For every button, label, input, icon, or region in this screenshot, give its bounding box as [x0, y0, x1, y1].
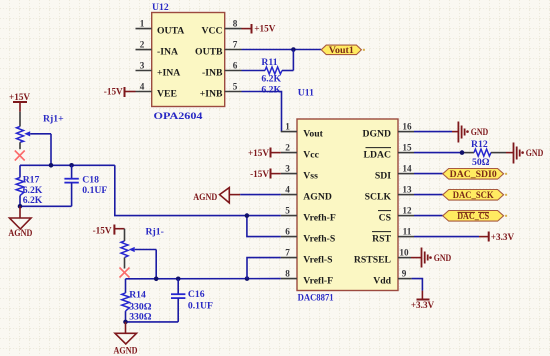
svg-text:Vdd: Vdd: [373, 275, 391, 286]
U12 pin 7 OUTB: [195, 40, 241, 58]
svg-text:1: 1: [285, 122, 290, 132]
svg-text:VEE: VEE: [157, 88, 177, 99]
U11 pin 14 SDI: [375, 164, 414, 182]
port DAC_CS (overlined): [443, 211, 507, 222]
svg-text:SCLK: SCLK: [365, 191, 392, 202]
U11 pin 15 LDAC: [364, 143, 414, 161]
junction C18 top: [69, 163, 74, 168]
svg-text:+3.3V: +3.3V: [491, 232, 515, 242]
capacitor C18: [64, 165, 78, 206]
U11 pin 13 SCLK: [365, 185, 414, 203]
wire Rj1- wiper down: [155, 250, 157, 279]
svg-text:U11: U11: [298, 87, 314, 98]
ground GND at pin 16: [452, 122, 489, 143]
svg-text:+15V: +15V: [9, 92, 30, 102]
svg-text:5: 5: [285, 206, 290, 216]
power -15V at U11 pin 3: [250, 169, 281, 179]
DAC U11 body: [297, 119, 398, 291]
svg-text:Vout1: Vout1: [329, 45, 354, 55]
svg-text:-15V: -15V: [250, 169, 269, 179]
U11 pin 10 RSTSEL: [354, 248, 411, 266]
svg-text:2: 2: [140, 40, 145, 50]
svg-text:Vrefl-S: Vrefl-S: [303, 254, 332, 265]
op-amp U12 body: [152, 13, 225, 107]
power -15V at U12 pin 4: [104, 87, 136, 98]
svg-text:16: 16: [402, 122, 412, 132]
svg-text:SDI: SDI: [375, 170, 391, 181]
svg-text:6.2K: 6.2K: [23, 195, 43, 206]
U11 pin 8 Vrefl-F: [281, 269, 333, 287]
wire R17 top: [19, 165, 21, 177]
svg-text:10: 10: [399, 248, 409, 258]
svg-text:12: 12: [402, 206, 412, 216]
power AGND below R14: [114, 322, 138, 356]
resistor R12: [474, 149, 506, 156]
svg-text:U12: U12: [152, 2, 169, 13]
svg-text:330Ω: 330Ω: [129, 312, 152, 323]
junction Rj1- wiper: [154, 277, 159, 282]
wire node A horizontal: [20, 164, 115, 166]
svg-text:-15V: -15V: [93, 226, 112, 236]
svg-text:RST: RST: [372, 233, 391, 244]
svg-text:GND: GND: [526, 148, 544, 158]
U11 pin 9 Vdd: [373, 269, 411, 287]
svg-text:-15V: -15V: [104, 87, 123, 97]
wire AGND to U11 pin 4: [240, 194, 281, 196]
svg-text:AGND: AGND: [303, 191, 332, 202]
svg-text:+3.3V: +3.3V: [411, 300, 435, 310]
wire U11 pin12 to port: [414, 215, 443, 217]
power -15V at Rj1-: [93, 225, 125, 236]
power +15V at Rj1+: [9, 92, 30, 112]
wire node A to U11 pins 5/6: [115, 165, 281, 215]
junction C16 top: [176, 277, 181, 282]
wire U12 pin7 to Vout1: [242, 49, 322, 51]
svg-text:VCC: VCC: [202, 25, 223, 36]
svg-text:R12: R12: [471, 139, 488, 150]
wire branch to pin 6: [247, 216, 281, 237]
svg-text:GND: GND: [471, 127, 489, 137]
wire U11 pin16 to GND: [414, 131, 452, 133]
svg-text:DGND: DGND: [362, 128, 391, 139]
svg-text:3: 3: [285, 164, 290, 174]
U11 pin 5 Vrefh-F: [281, 206, 336, 224]
svg-text:C16: C16: [188, 289, 205, 300]
svg-text:1: 1: [140, 19, 145, 29]
svg-text:7: 7: [285, 248, 290, 258]
junction at R11 top: [291, 47, 296, 52]
U11 pin 11 RST: [372, 227, 414, 245]
svg-text:Vrefh-S: Vrefh-S: [303, 233, 335, 244]
svg-text:8: 8: [233, 19, 238, 29]
svg-text:4: 4: [140, 82, 145, 92]
wire R14 bottom to C16 bottom: [126, 321, 179, 323]
wire R14 top: [125, 279, 127, 293]
svg-text:9: 9: [402, 269, 407, 279]
svg-text:+15V: +15V: [248, 148, 269, 158]
U12 pin 1 OUTA: [136, 19, 185, 37]
svg-text:R14: R14: [129, 290, 146, 301]
svg-text:CS: CS: [379, 212, 391, 223]
wire U11 pin14 to port: [414, 173, 443, 175]
wire U12 pin5 to DAC pin1: [242, 92, 282, 132]
wire R11 right vertical: [292, 50, 294, 71]
svg-text:6.2K: 6.2K: [261, 84, 281, 95]
junction Rj1+ wiper: [49, 163, 54, 168]
no-ERC cross at Rj1+: [15, 151, 25, 161]
U11 pin 16 DGND: [362, 122, 414, 140]
power +15V at U11 pin 2: [248, 148, 281, 158]
svg-text:Rj1-: Rj1-: [146, 226, 164, 237]
svg-text:GND: GND: [434, 253, 452, 263]
power +3.3V at pin 9: [411, 291, 435, 311]
resistor R11: [265, 67, 293, 74]
wire U12 pin6 to R11: [242, 70, 266, 72]
junction R14 bottom: [123, 320, 128, 325]
capacitor C16: [171, 279, 185, 322]
port DAC_SDI0: [443, 169, 507, 180]
U12 pin 2 -INA: [136, 40, 179, 58]
junction pin 6 branch: [245, 213, 250, 218]
wire Rj1+ wiper down: [50, 134, 52, 166]
svg-text:R17: R17: [23, 175, 40, 186]
svg-text:3: 3: [140, 61, 145, 71]
U11 pin 1 Vout: [281, 122, 324, 140]
no-ERC cross at Rj1-: [120, 268, 130, 278]
ground GND at R12: [506, 143, 544, 164]
svg-text:0.1UF: 0.1UF: [82, 185, 107, 196]
svg-text:OUTB: OUTB: [195, 46, 223, 57]
svg-text:+15V: +15V: [254, 24, 275, 34]
svg-text:13: 13: [402, 185, 412, 195]
U11 pin 4 AGND: [281, 185, 332, 203]
svg-text:Vrefl-F: Vrefl-F: [303, 275, 333, 286]
potentiometer Rj1+: [17, 112, 52, 149]
svg-text:7: 7: [233, 40, 238, 50]
svg-text:50Ω: 50Ω: [472, 157, 490, 168]
svg-text:LDAC: LDAC: [364, 149, 391, 160]
svg-text:2: 2: [285, 143, 290, 153]
svg-text:4: 4: [285, 185, 290, 195]
svg-text:Vrefh-F: Vrefh-F: [303, 212, 336, 223]
U12 pin 8 VCC: [202, 19, 242, 37]
wire U11 pin13 to port: [414, 194, 443, 196]
svg-text:AGND: AGND: [193, 192, 217, 203]
U11 pin 6 Vrefh-S: [281, 227, 335, 245]
svg-text:DAC8871: DAC8871: [298, 293, 334, 304]
U12 pin 3 +INA: [136, 61, 181, 79]
power AGND below R17: [8, 206, 32, 239]
svg-text:15: 15: [402, 143, 412, 153]
U12 pin 5 +INB: [200, 82, 242, 100]
U11 pin 12 CS: [378, 206, 414, 224]
svg-text:DAC_SCK: DAC_SCK: [453, 190, 494, 200]
junction pin7 branch: [245, 276, 250, 281]
power +3.3V at pin 11: [479, 232, 515, 242]
svg-text:6: 6: [233, 61, 238, 71]
svg-text:14: 14: [402, 164, 412, 174]
resistor R17: [16, 178, 24, 207]
svg-text:-INB: -INB: [202, 67, 223, 78]
port DAC_SCK: [443, 190, 507, 201]
svg-text:Vcc: Vcc: [303, 149, 319, 160]
junction at R12: [460, 150, 465, 155]
svg-text:DAC_SDI0: DAC_SDI0: [450, 169, 497, 179]
svg-text:OPA2604: OPA2604: [154, 111, 203, 122]
svg-text:AGND: AGND: [114, 346, 138, 356]
svg-text:-INA: -INA: [157, 46, 178, 57]
svg-text:Rj1+: Rj1+: [43, 113, 64, 124]
svg-text:+INA: +INA: [157, 67, 180, 78]
svg-text:C18: C18: [82, 175, 99, 186]
U12 pin 4 VEE: [136, 82, 177, 100]
U11 pin 3 Vss: [281, 164, 318, 182]
svg-text:5: 5: [233, 82, 238, 92]
svg-text:Vout: Vout: [303, 128, 323, 139]
svg-text:R11: R11: [261, 57, 277, 68]
wire branch to pin 7: [247, 258, 281, 279]
wire U11 pin9 down: [412, 279, 423, 291]
potentiometer Rj1-: [121, 229, 156, 269]
svg-text:6.2K: 6.2K: [261, 74, 281, 85]
svg-text:AGND: AGND: [8, 228, 32, 239]
junction R17 bottom: [18, 204, 23, 209]
power AGND at U11 pin 4: [193, 188, 240, 203]
svg-text:11: 11: [403, 227, 412, 237]
svg-text:OUTA: OUTA: [157, 25, 184, 36]
port Vout1: [321, 45, 365, 55]
svg-text:6: 6: [285, 227, 290, 237]
svg-text:Vss: Vss: [303, 170, 318, 181]
power +15V at U12 pin 8: [242, 24, 276, 34]
svg-text:0.1UF: 0.1UF: [188, 300, 213, 311]
svg-text:8: 8: [285, 269, 290, 279]
resistor R14: [122, 293, 130, 322]
U11 pin 2 Vcc: [281, 143, 320, 161]
wire node B horizontal to U11 pin 8: [126, 278, 281, 280]
ground GND at pin 10: [411, 248, 452, 268]
svg-text:+INB: +INB: [200, 88, 223, 99]
U12 pin 6 -INB: [202, 61, 241, 79]
wire U11 pin15 to R12: [414, 152, 462, 154]
wire U11 pin11 to +3.3V: [414, 236, 479, 238]
U11 pin 7 Vrefl-S: [281, 248, 333, 266]
svg-text:RSTSEL: RSTSEL: [354, 254, 392, 265]
wire R17 bottom to C18 bottom: [20, 205, 72, 207]
